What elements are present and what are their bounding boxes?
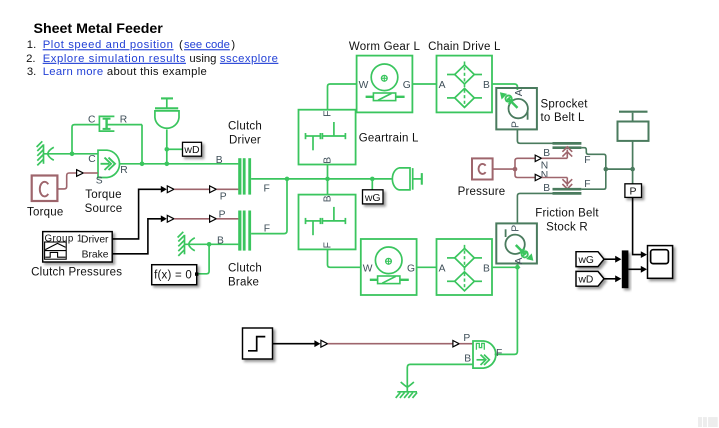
svg-text:P: P bbox=[220, 191, 227, 202]
scope block bbox=[648, 246, 673, 279]
from tag wG bbox=[576, 252, 604, 267]
svg-text:F: F bbox=[496, 348, 502, 359]
signal builder block Clutch Pressures bbox=[43, 232, 113, 262]
torque source U1 bbox=[98, 150, 120, 177]
svg-text:Clutch Pressures: Clutch Pressures bbox=[31, 267, 122, 279]
wire pressure to belt R N bbox=[515, 169, 572, 189]
wire geartrain L top to worm gear W bbox=[328, 84, 357, 110]
svg-text:using: using bbox=[189, 53, 216, 65]
svg-text:f(x) = 0: f(x) = 0 bbox=[154, 270, 192, 282]
wire sprocket L P to belt bbox=[517, 130, 552, 144]
wire wD to mux bbox=[604, 275, 621, 282]
svg-text:C: C bbox=[88, 154, 96, 165]
belt R port label F bbox=[584, 179, 590, 190]
belt friction L element bbox=[553, 143, 582, 147]
node junction geartrain tap bbox=[325, 177, 330, 182]
solver configuration block f(x)=0 bbox=[152, 265, 199, 285]
wire brake physical signal to P bbox=[174, 215, 238, 222]
geartrain L port label B bottom bbox=[323, 157, 334, 164]
belt L port label N bbox=[541, 160, 548, 171]
node junction belt F merge bbox=[604, 167, 609, 172]
node junction wD tap bbox=[165, 147, 170, 152]
svg-text:Source: Source bbox=[85, 203, 123, 215]
svg-text:A: A bbox=[514, 89, 525, 96]
geartrain L port label F top bbox=[323, 111, 334, 117]
svg-text:P: P bbox=[463, 333, 470, 344]
sprocket to belt R block bbox=[496, 223, 537, 268]
clutch driver port label B bbox=[216, 155, 223, 166]
svg-text:S: S bbox=[96, 176, 103, 187]
damper D1 between C and R bbox=[99, 116, 142, 131]
node junction damper R on shaft bbox=[140, 162, 145, 167]
torque source port label S bbox=[96, 176, 103, 187]
svg-text:N: N bbox=[541, 170, 548, 181]
svg-text:Group 1: Group 1 bbox=[45, 234, 83, 245]
wire belt L F to junction bbox=[581, 148, 605, 169]
geartrain R port label F bottom bbox=[323, 242, 334, 248]
svg-text:Brake: Brake bbox=[228, 276, 259, 288]
label Torque bbox=[27, 207, 63, 219]
node junction wG tap bbox=[370, 177, 375, 182]
svg-text:B: B bbox=[543, 183, 550, 194]
svg-text:F: F bbox=[323, 242, 334, 248]
label Clutch Pressures bbox=[31, 267, 122, 279]
svg-text:F: F bbox=[264, 183, 270, 194]
wire pressure to belt L N bbox=[515, 147, 572, 169]
wire junction to mass branch bbox=[606, 168, 633, 170]
svg-text:R: R bbox=[120, 114, 127, 125]
wire wG to mux bbox=[604, 256, 621, 263]
label Pressure bbox=[458, 186, 506, 198]
belt R port label N bbox=[541, 170, 548, 181]
svg-text:F: F bbox=[323, 111, 334, 117]
svg-text:G: G bbox=[403, 80, 411, 91]
geartrain R port label B top bbox=[323, 195, 334, 202]
svg-text:R: R bbox=[120, 165, 127, 176]
chain drive R port label B bbox=[483, 264, 490, 275]
belt L port label F bbox=[584, 155, 590, 166]
clutch brake plates bbox=[240, 211, 250, 251]
belt L port label B bbox=[543, 148, 550, 159]
wire belt R B to sprocket R P bbox=[517, 193, 553, 223]
mass block with reference bbox=[618, 112, 649, 141]
node junction sprocket R bbox=[515, 265, 520, 270]
wire brake signal bbox=[112, 215, 174, 253]
svg-text:(: ( bbox=[179, 39, 183, 51]
svg-text:B: B bbox=[464, 354, 471, 365]
damper port label R bbox=[120, 114, 127, 125]
svg-text:B: B bbox=[483, 264, 490, 275]
label Geartrain L bbox=[359, 133, 419, 145]
chain drive L port label A bbox=[439, 80, 446, 91]
svg-text:Learn more: Learn more bbox=[43, 66, 104, 78]
sprocket R port label P top bbox=[511, 225, 522, 232]
from tag wD bbox=[576, 271, 604, 286]
wire step to converter bbox=[273, 340, 328, 347]
svg-text:Sprocket: Sprocket bbox=[541, 99, 589, 111]
svg-text:Driver: Driver bbox=[81, 234, 109, 245]
wire down to P tag bbox=[632, 169, 634, 184]
svg-text:Geartrain L: Geartrain L bbox=[359, 133, 419, 145]
wire worm gear L G to chain drive A bbox=[412, 83, 436, 85]
svg-text:wD: wD bbox=[578, 275, 594, 286]
svg-text:1.: 1. bbox=[27, 39, 36, 51]
svg-text:F: F bbox=[584, 155, 590, 166]
ground rotational reference left bbox=[37, 141, 54, 165]
chain drive L port label B bbox=[483, 80, 490, 91]
label Sprocket to Belt L bbox=[541, 99, 589, 124]
wire junction up to damper C bbox=[72, 125, 99, 154]
actuator port label B bbox=[464, 354, 471, 365]
inertia J2 side flask bbox=[392, 168, 421, 190]
wire pressure constant out bbox=[493, 168, 515, 170]
svg-text:F: F bbox=[584, 179, 590, 190]
inertia J1 flask bbox=[155, 98, 179, 128]
sprocket to belt L block bbox=[496, 88, 537, 129]
clutch brake port label P bbox=[219, 210, 226, 221]
wire up to mass block bbox=[632, 141, 634, 169]
svg-text:Torque: Torque bbox=[85, 189, 121, 201]
clutch driver plates bbox=[240, 158, 250, 194]
constant block Pressure bbox=[472, 158, 493, 179]
wire mux to scope bbox=[628, 266, 647, 273]
wire F line clutch driver to inertia bbox=[251, 178, 392, 180]
title annotation bbox=[34, 21, 164, 37]
svg-text:B: B bbox=[216, 155, 223, 166]
sprocket R port label A bottom bbox=[514, 257, 525, 264]
clutch driver port label F bbox=[264, 183, 270, 194]
belt friction R element bbox=[553, 189, 582, 193]
svg-text:Clutch: Clutch bbox=[228, 121, 262, 133]
wire actuator B to ground bbox=[407, 364, 473, 391]
svg-text:W: W bbox=[359, 80, 369, 91]
clutch driver port label P bbox=[220, 191, 227, 202]
svg-text:about this example: about this example bbox=[107, 66, 207, 78]
geartrain L block bbox=[299, 110, 356, 165]
svg-text:C: C bbox=[88, 114, 96, 125]
svg-text:2.: 2. bbox=[26, 53, 35, 65]
geartrain R block bbox=[299, 195, 356, 250]
svg-text:wG: wG bbox=[364, 192, 381, 204]
torque source label bbox=[85, 189, 123, 215]
label Worm Gear L bbox=[349, 41, 421, 53]
wire geartrain R bottom to worm gear R bbox=[328, 249, 361, 267]
torque source port label R bbox=[120, 165, 127, 176]
node junction at C branch bbox=[70, 152, 75, 157]
svg-text:Stock R: Stock R bbox=[546, 221, 588, 233]
list item 2 bbox=[26, 53, 278, 65]
wire physical signal to actuator P bbox=[328, 341, 473, 347]
wire driver physical signal to P bbox=[174, 186, 238, 193]
torque source port label C bbox=[88, 154, 96, 165]
node junction brake F bbox=[285, 177, 290, 182]
actuator port label F bbox=[496, 348, 502, 359]
svg-text:to Belt L: to Belt L bbox=[541, 112, 586, 124]
svg-text:Chain Drive L: Chain Drive L bbox=[428, 41, 501, 53]
svg-text:Explore simulation results: Explore simulation results bbox=[43, 53, 186, 65]
worm gear R port label W bbox=[363, 264, 373, 275]
worm gear L port label G bbox=[403, 80, 411, 91]
svg-text:A: A bbox=[439, 264, 446, 275]
wire P tag to scope bbox=[633, 197, 647, 258]
svg-text:Pressure: Pressure bbox=[458, 186, 506, 198]
svg-text:wD: wD bbox=[183, 144, 200, 156]
list item 1 bbox=[27, 39, 236, 51]
svg-text:Clutch: Clutch bbox=[228, 263, 262, 275]
svg-text:B: B bbox=[323, 157, 334, 164]
watermark bbox=[698, 417, 718, 427]
svg-text:B: B bbox=[323, 195, 334, 202]
wire belt R F to junction bbox=[581, 169, 605, 189]
svg-text:see code: see code bbox=[184, 39, 230, 51]
clutch brake port label B bbox=[217, 235, 224, 246]
svg-text:W: W bbox=[363, 264, 373, 275]
wire to wD tag bbox=[167, 148, 183, 150]
wire ground to torque source C bbox=[44, 153, 99, 155]
belt R port label B bbox=[543, 183, 550, 194]
svg-text:P: P bbox=[629, 186, 636, 198]
wire to wG tag bbox=[371, 179, 373, 190]
chain drive R port label A bbox=[439, 264, 446, 275]
svg-text:Torque: Torque bbox=[27, 207, 63, 219]
step block bbox=[243, 328, 273, 359]
svg-text:A: A bbox=[439, 80, 446, 91]
worm gear R port label G bbox=[407, 264, 415, 275]
clutch driver label bbox=[228, 121, 262, 147]
node junction pressure split bbox=[513, 167, 518, 172]
wire worm gear R G to chain drive R A bbox=[417, 266, 437, 268]
ground translational reference bbox=[396, 382, 417, 398]
svg-text:Worm Gear L: Worm Gear L bbox=[349, 41, 421, 53]
worm gear L port label W bbox=[359, 80, 369, 91]
svg-text:Friction Belt: Friction Belt bbox=[535, 208, 599, 220]
node junction solver tap bbox=[207, 242, 212, 247]
wire flask stem down to shaft bbox=[166, 130, 168, 164]
wire brake ground to B bbox=[185, 243, 239, 245]
node junction flask on shaft bbox=[165, 162, 170, 167]
wire chain drive L B to sprocket A bbox=[492, 84, 517, 90]
worm gear L block bbox=[357, 56, 413, 113]
label Friction Belt Stock R bbox=[535, 208, 599, 234]
wire damper R down to shaft bbox=[141, 125, 143, 164]
node junction mass branch bbox=[630, 167, 635, 172]
wire geartrain L bottom to F line bbox=[327, 165, 329, 179]
svg-text:A: A bbox=[514, 257, 525, 264]
actuator force source block bbox=[473, 341, 496, 368]
wire junction up to sprocket R A bbox=[516, 264, 518, 268]
wire torque constant to S with converter triangle bbox=[57, 170, 98, 189]
svg-text:Brake: Brake bbox=[82, 249, 109, 260]
svg-text:P: P bbox=[511, 225, 522, 232]
sprocket L port label P bottom bbox=[511, 121, 522, 128]
svg-text:B: B bbox=[483, 80, 490, 91]
clutch brake port label F bbox=[264, 224, 270, 235]
svg-text:3.: 3. bbox=[27, 66, 36, 78]
svg-text:P: P bbox=[511, 121, 522, 128]
wire R line to clutch driver B bbox=[120, 163, 239, 165]
constant block Torque bbox=[32, 176, 58, 202]
goto tag P bbox=[625, 184, 642, 198]
mux block bbox=[622, 250, 629, 288]
svg-text:sscexplore: sscexplore bbox=[220, 53, 279, 65]
label Chain Drive L bbox=[428, 41, 501, 53]
goto tag wG bbox=[363, 190, 384, 204]
ground rotational reference brake bbox=[178, 232, 195, 256]
svg-text:wG: wG bbox=[578, 255, 594, 266]
chain drive R block bbox=[437, 239, 493, 295]
clutch brake label bbox=[228, 263, 262, 289]
svg-text:): ) bbox=[231, 39, 235, 51]
chain drive L block bbox=[437, 56, 493, 113]
wire junction down to actuator F bbox=[495, 267, 518, 354]
svg-text:G: G bbox=[407, 264, 415, 275]
list item 3 bbox=[27, 66, 207, 78]
sprocket L port label A top bbox=[514, 89, 525, 96]
worm gear R block bbox=[361, 239, 417, 295]
damper port label C bbox=[88, 114, 96, 125]
wire F line into geartrain R top bbox=[327, 179, 329, 195]
svg-text:Driver: Driver bbox=[229, 135, 261, 147]
svg-text:Plot speed and position: Plot speed and position bbox=[43, 39, 174, 51]
wire chain drive R B to junction bbox=[492, 266, 517, 268]
actuator port label P bbox=[463, 333, 470, 344]
wire solver to B line bbox=[198, 244, 209, 273]
wire driver signal bbox=[112, 186, 174, 239]
goto tag wD bbox=[183, 142, 202, 156]
svg-text:Sheet Metal Feeder: Sheet Metal Feeder bbox=[34, 21, 164, 37]
wire clutch brake F up to F line bbox=[251, 179, 287, 234]
